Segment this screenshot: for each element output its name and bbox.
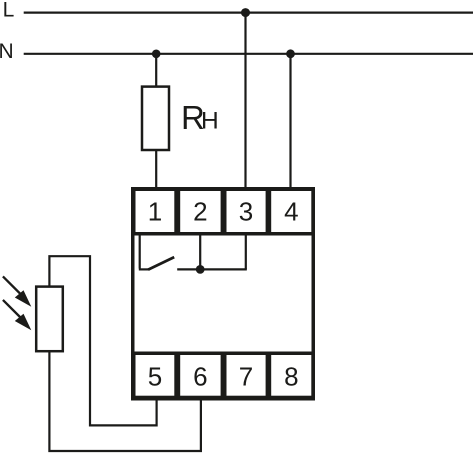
terminal block top row — [131, 187, 315, 236]
wire L line — [24, 12, 473, 14]
svg-text:N: N — [0, 40, 14, 63]
label RH — [181, 99, 219, 136]
svg-text:5: 5 — [148, 361, 162, 391]
terminal 4 — [271, 191, 311, 232]
wire contact to terminal 2 — [199, 235, 201, 269]
junction dot on N line above resistor — [152, 50, 161, 59]
resistor RH — [142, 87, 169, 150]
terminal 7 — [227, 355, 266, 396]
svg-text:2: 2 — [193, 197, 207, 227]
svg-text:6: 6 — [193, 361, 207, 391]
light arrow 2 — [3, 300, 31, 330]
svg-text:3: 3 — [239, 197, 253, 227]
junction dot below terminal 2 — [196, 265, 205, 274]
wire N line — [24, 53, 473, 55]
wire resistor bottom to terminal 1 — [155, 150, 157, 190]
wire L line to terminal 3 — [244, 13, 246, 190]
wire terminal 5 to photoresistor top — [49, 256, 156, 425]
svg-text:L: L — [3, 0, 15, 22]
svg-text:H: H — [201, 108, 219, 135]
terminal 8 — [271, 355, 311, 396]
wire N line to resistor top — [155, 54, 157, 88]
svg-text:7: 7 — [239, 361, 253, 391]
terminal 2 — [180, 191, 220, 232]
relay module outline — [133, 189, 314, 399]
light arrow 1 — [3, 276, 31, 306]
wire N line to terminal 4 — [289, 54, 291, 190]
terminal block bottom row — [131, 352, 315, 401]
svg-text:8: 8 — [284, 361, 298, 391]
wire contact to terminal 3 — [245, 235, 247, 269]
svg-text:4: 4 — [284, 197, 298, 227]
terminal 1 — [136, 191, 175, 232]
photoresistor — [36, 287, 63, 352]
terminal 5 — [136, 355, 175, 396]
junction dot on N line above terminal 4 — [286, 49, 295, 58]
terminal 3 — [227, 191, 266, 232]
wire terminal 6 to photoresistor bottom — [49, 351, 201, 452]
junction dot on L line — [241, 8, 250, 17]
terminal 6 — [180, 355, 220, 396]
svg-text:1: 1 — [148, 197, 162, 227]
relay contact blade — [139, 257, 174, 270]
wire terminal 1 to contact pivot — [139, 235, 141, 269]
wire contact fixed side — [177, 268, 247, 270]
